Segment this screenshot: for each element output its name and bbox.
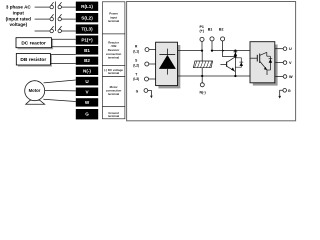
terminal circle P1: [200, 37, 204, 41]
terminal S(L2): [76, 13, 98, 22]
wire DB resistor to B1: [50, 53, 75, 55]
terminal V: [76, 88, 98, 97]
svg-text:input: input: [13, 11, 25, 16]
wire DC reactor to P1(+): [52, 38, 76, 40]
svg-text:(+): (+): [199, 29, 204, 33]
panel: inverter unit outline: [127, 2, 296, 121]
svg-text:B1: B1: [208, 27, 213, 31]
capacitor DC link (hatched): [193, 51, 212, 76]
svg-text:(L2): (L2): [133, 63, 139, 67]
component DB resistor: [16, 54, 52, 67]
transistor collector lead: [227, 57, 236, 63]
terminal U: [76, 77, 98, 86]
svg-text:DC reactor: DC reactor: [21, 41, 46, 47]
wire S phase to MCCB: [35, 18, 50, 20]
diode chopper freewheel loop: [235, 58, 241, 67]
wire DC bus plus (B1 to inverter): [211, 50, 250, 52]
wire R to rectifier: [149, 49, 156, 51]
wire DC reactor to B1: [52, 46, 76, 48]
terminal G: [76, 109, 98, 119]
transistor emitter lead with arrow: [227, 66, 236, 71]
wire inverter to W: [275, 76, 283, 78]
wire MCCB to T(L3): [61, 30, 75, 32]
node: ground terminal note: [102, 107, 125, 119]
breaker MCCB 3-pole: [50, 2, 62, 33]
terminal R(L1): [76, 2, 98, 11]
description boxes: [102, 2, 125, 119]
svg-text:(input rated: (input rated: [6, 16, 31, 21]
svg-text:(L1): (L1): [133, 49, 139, 53]
junction chopper collector node: [234, 55, 236, 57]
terminal circle T: [145, 77, 149, 81]
svg-text:S(L2): S(L2): [81, 15, 93, 20]
svg-text:U: U: [289, 47, 292, 51]
wire P1 drop: [201, 42, 203, 51]
wire chopper vertical: [234, 51, 236, 76]
terminal circle V: [283, 61, 287, 65]
wire DC bus minus: [178, 75, 251, 77]
terminal circle B1: [210, 37, 214, 41]
node P1 (+) label: [199, 25, 223, 33]
junction P1 bus: [201, 49, 203, 51]
svg-text:W: W: [289, 75, 293, 79]
node: DC voltage terminal note: [102, 65, 125, 76]
svg-text:T(L3): T(L3): [81, 27, 93, 32]
terminal W: [76, 98, 98, 106]
terminal N(-): [76, 67, 98, 75]
rectifier module U1: [156, 42, 181, 88]
svg-text:voltage): voltage): [9, 22, 27, 27]
transistor DB chopper: [220, 41, 243, 77]
svg-text:3 phase AC: 3 phase AC: [6, 5, 32, 10]
ground right chassis arrow: [278, 90, 283, 98]
svg-text:S: S: [135, 59, 137, 63]
wire MCCB to R(L1): [61, 6, 75, 8]
terminal circle N(-): [200, 83, 204, 87]
diode D1 inside rectifier: [166, 49, 168, 55]
svg-text:W: W: [85, 100, 90, 105]
wire R phase to MCCB: [35, 6, 50, 8]
arrow on DC bus at B2: [222, 50, 224, 52]
terminal circle G right: [283, 89, 287, 93]
svg-text:G: G: [288, 89, 291, 93]
wire motor to V: [45, 89, 76, 92]
junction N bus: [201, 75, 203, 77]
wire B2 drop: [223, 41, 236, 57]
svg-text:terminal: terminal: [108, 71, 119, 75]
terminal circle R: [145, 48, 149, 52]
diode chopper upper: [234, 51, 238, 53]
motor M: [25, 81, 45, 105]
node R (L1) label: [133, 45, 139, 94]
terminal T(L3): [76, 24, 98, 33]
terminal P1(+): [76, 35, 98, 44]
svg-text:terminal: terminal: [108, 114, 119, 118]
wire DC bus plus (rectifier to P1): [178, 50, 204, 52]
terminal circle G left: [144, 89, 148, 93]
wire DB resistor to B2: [50, 63, 75, 65]
transistor base lead: [220, 63, 226, 65]
junction chopper rail: [234, 75, 236, 77]
wire motor to W: [43, 99, 75, 101]
terminal circle B2: [221, 37, 225, 41]
svg-text:B2: B2: [219, 27, 224, 31]
wire T to rectifier: [149, 78, 156, 80]
wire MCCB to S(L2): [61, 18, 75, 20]
wire inverter to V: [275, 62, 283, 64]
svg-text:terminal: terminal: [108, 56, 119, 60]
svg-text:N(-): N(-): [83, 68, 91, 73]
svg-text:DB resistor: DB resistor: [20, 57, 46, 63]
wire T phase to MCCB: [35, 30, 50, 32]
wire B1 drop: [211, 41, 213, 51]
wire motor to U: [44, 80, 76, 83]
svg-text:R(L1): R(L1): [81, 4, 93, 9]
terminal B2: [76, 57, 98, 65]
node: reactor/DB resistor note: [102, 34, 125, 66]
wire inverter to U: [275, 48, 283, 50]
svg-text:terminal: terminal: [108, 19, 119, 23]
svg-text:Motor: Motor: [29, 88, 41, 93]
ground left chassis arrow: [148, 91, 153, 99]
component DC reactor: [16, 38, 53, 50]
svg-text:terminal: terminal: [108, 92, 119, 96]
terminal B1: [76, 46, 98, 55]
wire N stub: [201, 76, 203, 83]
transistor base bar: [226, 62, 228, 67]
terminal block column: [76, 2, 98, 120]
terminal circle S: [145, 62, 149, 66]
wire S to rectifier: [149, 63, 156, 65]
junction chopper bus: [234, 49, 236, 51]
inverter module U2: [250, 42, 278, 86]
svg-text:B1: B1: [84, 48, 90, 53]
node: power input terminal note: [102, 2, 125, 34]
node: motor connection note: [102, 77, 125, 107]
terminal circle U: [283, 47, 287, 51]
node U label: [288, 47, 293, 93]
svg-text:T: T: [135, 72, 137, 76]
svg-text:B2: B2: [84, 58, 90, 63]
terminal circle W: [283, 75, 287, 79]
svg-text:P1(+): P1(+): [81, 38, 93, 43]
svg-text:G: G: [85, 112, 89, 117]
IGBT Q1 inside inverter: [251, 57, 258, 59]
diode inverter freewheel: [269, 56, 271, 70]
svg-text:(L3): (L3): [133, 77, 139, 81]
node: 3 phase AC input label: [6, 5, 32, 27]
svg-text:N(-): N(-): [200, 90, 207, 94]
junction B1 bus: [211, 49, 213, 51]
